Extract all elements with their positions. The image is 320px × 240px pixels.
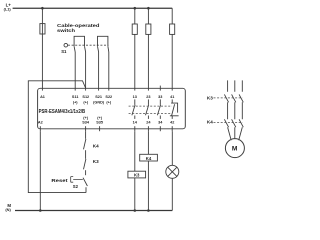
svg-text:S12: S12	[82, 95, 89, 99]
svg-text:(L1): (L1)	[4, 7, 12, 12]
svg-text:(+): (+)	[97, 116, 102, 120]
svg-text:switch: switch	[57, 28, 75, 33]
switch S1 actuator circle	[64, 43, 68, 47]
svg-text:K3: K3	[93, 159, 99, 164]
svg-text:(+): (+)	[83, 101, 88, 105]
wire top supply rail	[13, 7, 173, 9]
svg-text:S21: S21	[95, 95, 102, 99]
switch S1 channel 1 bridge contact	[74, 36, 84, 46]
wire contact to terminal S21	[98, 52, 100, 91]
svg-text:S35: S35	[96, 121, 103, 125]
fuse F1	[40, 24, 45, 34]
wire contact to terminal S22	[108, 52, 110, 91]
node junction dot 13 on rail	[134, 7, 137, 10]
terminal tick 34 bottom	[159, 126, 161, 131]
svg-text:PSR-ESAM4/3x1/1x2/B: PSR-ESAM4/3x1/1x2/B	[39, 109, 86, 115]
svg-text:Reset: Reset	[51, 178, 68, 183]
relay output contact 23-24	[147, 99, 149, 105]
motor M1	[225, 139, 244, 158]
relay output contact 13-14	[134, 99, 136, 105]
svg-text:(+): (+)	[106, 101, 111, 105]
terminal tick A2 bottom	[39, 126, 41, 131]
svg-text:23: 23	[146, 95, 150, 99]
pushbutton S2 bottom stub	[85, 187, 87, 192]
wire 14 to coil K3	[134, 131, 136, 171]
svg-text:K4: K4	[93, 143, 99, 148]
mechanical link dashed K3	[214, 97, 243, 99]
contact K4 blade	[84, 139, 86, 149]
wire fuse F1 to terminal A1	[41, 34, 43, 91]
terminal tick S34 bottom	[85, 126, 87, 131]
wire rail to fuse F1	[41, 8, 43, 23]
mechanical link dashed outputs upper	[129, 105, 172, 107]
wire A2 to bottom rail	[39, 131, 41, 210]
svg-text:K3: K3	[134, 173, 140, 178]
contact K3 blade	[84, 159, 86, 169]
wire 24 to coil K4	[147, 131, 149, 154]
svg-text:M: M	[232, 145, 238, 152]
svg-text:K4: K4	[146, 156, 152, 161]
svg-text:S1: S1	[61, 49, 67, 54]
node junction dot A2 on rail	[39, 209, 42, 212]
wire between K4 and K3 contacts	[85, 150, 87, 159]
pushbutton S2 actuator	[71, 177, 83, 183]
relay PSR-ESAM4 box	[38, 88, 186, 129]
coil K3 box	[128, 171, 146, 178]
svg-text:S2: S2	[73, 184, 79, 189]
wire lamp to bottom rail	[171, 178, 173, 210]
terminal tick 24 bottom	[147, 126, 149, 131]
switch S1 channel 2 bridge contact	[98, 36, 108, 46]
node junction dot 23 on rail	[147, 7, 150, 10]
fuse F2	[132, 24, 137, 34]
wire fuse F4 to terminal 41	[171, 34, 173, 90]
svg-text:S22: S22	[105, 95, 112, 99]
wire contact to terminal S11	[74, 52, 76, 91]
relay output contact 33-34	[159, 99, 161, 105]
svg-text:14: 14	[133, 121, 138, 125]
svg-text:A1: A1	[40, 95, 45, 99]
svg-text:24: 24	[146, 121, 151, 125]
wire coil K4 to bottom rail	[147, 161, 149, 211]
contactor K3 contacts three phase	[224, 80, 243, 140]
svg-text:(GND): (GND)	[93, 101, 105, 105]
wire rail to fuse F2	[134, 8, 136, 24]
wire K3 contact to S2	[85, 170, 87, 175]
svg-text:(N): (N)	[5, 207, 11, 212]
svg-text:13: 13	[133, 95, 137, 99]
wire S12 feedback loop left and down to reset	[28, 81, 86, 193]
pushbutton S2 blade	[83, 178, 87, 186]
svg-text:S34: S34	[82, 121, 90, 125]
node junction dot K3 on rail	[134, 209, 137, 212]
wire bottom return rail	[15, 210, 172, 212]
svg-text:34: 34	[158, 121, 163, 125]
svg-text:K4: K4	[207, 120, 213, 125]
terminal tick 42 bottom	[171, 126, 173, 131]
terminal tick 33 top	[159, 86, 161, 91]
svg-text:(+): (+)	[73, 101, 78, 105]
mechanical link dashed K4	[214, 122, 243, 124]
wire S34 to contact K4	[85, 131, 87, 139]
svg-text:41: 41	[170, 95, 174, 99]
svg-text:S11: S11	[72, 95, 79, 99]
wire coil K3 to bottom rail	[134, 178, 136, 211]
mechanical link dashed S1	[68, 44, 109, 46]
wire fuse F3 to terminal 23	[147, 34, 149, 90]
wire contact to terminal S12	[85, 52, 87, 91]
svg-text:K3: K3	[207, 95, 213, 100]
wire 42 to lamp	[171, 131, 173, 165]
terminal tick 14 bottom	[134, 126, 136, 131]
coil K4 box	[140, 154, 158, 161]
svg-text:33: 33	[158, 95, 162, 99]
relay NC contact 41-42	[171, 99, 173, 103]
svg-text:42: 42	[170, 121, 174, 125]
node junction dot A1 on rail	[41, 7, 44, 10]
svg-text:A2: A2	[38, 121, 43, 125]
fuse F4	[170, 24, 175, 34]
lamp H1	[166, 165, 179, 178]
node junction dot K4 on rail	[147, 209, 150, 212]
mechanical link dashed outputs lower	[129, 113, 171, 115]
wire rail to fuse F3	[147, 8, 149, 24]
terminal tick S35 bottom	[99, 126, 101, 131]
svg-text:(+): (+)	[83, 116, 88, 120]
wire rail corner to fuse F4	[171, 8, 173, 24]
wire fuse F2 to terminal 13	[134, 34, 136, 90]
fuse F3	[146, 24, 151, 34]
